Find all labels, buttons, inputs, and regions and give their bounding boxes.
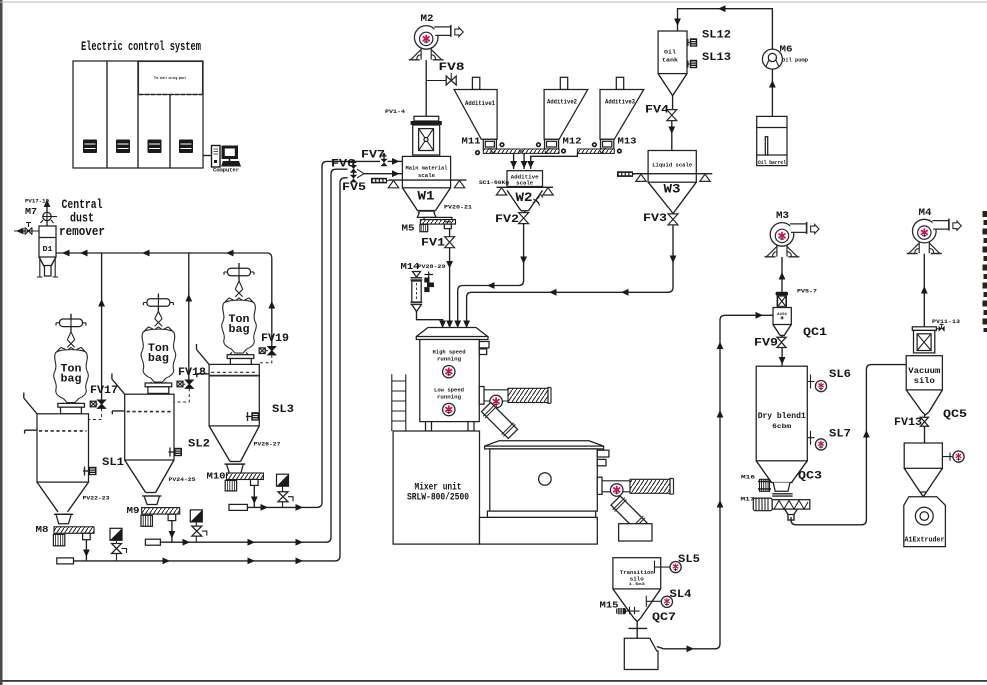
cooler dome (485, 441, 604, 446)
svg-text:PV1-4: PV1-4 (385, 108, 406, 115)
W1 scale body (388, 156, 466, 217)
valve FV19 (259, 333, 289, 363)
flange bar under QC3 (772, 494, 792, 496)
svg-text:bag: bag (148, 353, 169, 365)
oil tank (658, 31, 687, 96)
feeder M12 (522, 137, 582, 154)
svg-text:D1: D1 (43, 246, 53, 254)
valve FV18 (174, 367, 206, 402)
svg-text:QC3: QC3 (798, 471, 822, 483)
sensor SL5 (655, 554, 701, 573)
border frame left (0, 0, 3, 685)
svg-text:SL1: SL1 (102, 457, 124, 469)
sensor SL2 (169, 448, 183, 457)
spreader bar ton bag 2 (143, 294, 173, 312)
svg-text:Electric control system: Electric control system (81, 39, 201, 54)
dust riser FV18 (188, 253, 190, 380)
svg-text:bag: bag (61, 374, 82, 386)
svg-text:PV11-13: PV11-13 (932, 318, 961, 325)
svg-text:1.5m3: 1.5m3 (629, 583, 646, 587)
svg-text:SL7: SL7 (829, 429, 851, 441)
svg-text:W2: W2 (516, 190, 533, 205)
screw feeder M10 (225, 473, 263, 491)
wire FV9 to dry blend (781, 348, 783, 367)
svg-text:FV18: FV18 (178, 367, 206, 379)
svg-text:PV26-27: PV26-27 (254, 441, 281, 448)
svg-text:SC1-60Kg: SC1-60Kg (479, 180, 509, 186)
motor M16 (758, 479, 771, 491)
spreader bar ton bag 3 (224, 263, 254, 281)
W2 additive scale (496, 171, 553, 211)
sensor SL6 (807, 369, 851, 392)
ejector (624, 638, 658, 669)
svg-text:FV2: FV2 (495, 214, 519, 226)
svg-text:Additive3: Additive3 (605, 99, 635, 106)
wire M14 to mixer (417, 312, 443, 330)
svg-text:M4: M4 (919, 208, 932, 219)
svg-text:M5: M5 (402, 224, 415, 234)
valve FV17 (89, 385, 119, 420)
chute cooler to discharge box (610, 495, 649, 534)
filter on W1 (411, 116, 442, 155)
svg-text:M7: M7 (25, 207, 37, 217)
hopper 2 body (112, 374, 174, 505)
svg-text:FV1: FV1 (421, 238, 445, 250)
valve FV3 (643, 213, 678, 225)
extruder A1 (904, 492, 946, 547)
bag 3 outlet flange (228, 352, 250, 356)
svg-text:FV3: FV3 (643, 213, 667, 225)
border frame bottom (2, 680, 987, 682)
hopper 1 body (24, 393, 89, 524)
hook ton bag 2 (155, 312, 162, 327)
sensor SL7 (807, 429, 851, 451)
bag 1 outlet flange (60, 403, 82, 407)
wire FV1 to mixer (449, 248, 451, 330)
filter vacuum silo (912, 327, 936, 353)
ton bag 1 (54, 347, 89, 402)
wire vacuum silo to M4 (923, 254, 925, 327)
wire M11 to W2 (513, 153, 515, 169)
svg-text:Liquid scale: Liquid scale (652, 162, 692, 169)
svg-text:scale: scale (418, 172, 435, 179)
wire oil return header (678, 9, 773, 49)
cooler top plate (485, 446, 604, 449)
hook ton bag 3 (235, 281, 242, 297)
screw feeder M9 (141, 508, 180, 527)
oil pump M6 (762, 49, 782, 69)
svg-text:The short wiring panel: The short wiring panel (154, 76, 186, 80)
blower M4 (907, 219, 962, 254)
valve FV9 (754, 335, 786, 349)
ton bag 2 (141, 327, 176, 382)
valve FV7 (361, 150, 402, 167)
svg-text:silo: silo (630, 576, 644, 582)
filter QC1 (776, 292, 788, 307)
side motor high speed (479, 387, 551, 408)
svg-text:M6: M6 (780, 45, 793, 55)
valve FV5 (342, 169, 402, 194)
hook ton bag 1 (67, 332, 74, 348)
fan M7 (41, 200, 58, 227)
oil barrel (757, 116, 787, 166)
electric control cabinet (73, 61, 203, 168)
air inlet nozzle line2 (145, 539, 160, 545)
svg-text:running: running (437, 356, 462, 363)
valve FV13 (894, 415, 929, 429)
dust riser FV17 (101, 253, 103, 400)
valve at D1 inlet (14, 223, 39, 235)
wire M10 to line3 (253, 485, 255, 507)
svg-text:Computer: Computer (213, 168, 239, 174)
dust header wire (56, 253, 272, 346)
svg-text:Transition: Transition (620, 570, 654, 576)
sensor SL12 (687, 30, 731, 47)
svg-text:Low speed: Low speed (434, 387, 464, 394)
svg-text:SRLW-800/2500: SRLW-800/2500 (407, 492, 469, 504)
valve FV8 (426, 62, 465, 85)
wire line3 (M10 to FV7 riser) (247, 161, 380, 507)
vent valve on line3 (277, 474, 294, 507)
svg-text:Oil pump: Oil pump (782, 58, 808, 64)
dust remover D1 (37, 226, 58, 277)
additive3 hopper (600, 77, 644, 139)
svg-text:SL3: SL3 (272, 404, 294, 416)
mixer pedestal (393, 431, 479, 544)
svg-text:QC5: QC5 (943, 409, 967, 421)
wire line1 (M8 to FV5 riser) (74, 178, 348, 561)
svg-text:PV20-21: PV20-21 (444, 204, 473, 211)
svg-text:QC7: QC7 (652, 612, 676, 624)
svg-text:W1: W1 (418, 189, 435, 204)
vent box W3 (617, 171, 633, 177)
svg-text:W3: W3 (664, 182, 681, 197)
additive2 hopper (544, 77, 588, 139)
feeder M13 (577, 137, 636, 154)
air inlet nozzle line3 (229, 504, 247, 510)
dry blend silo (756, 366, 807, 491)
valve FV4 (645, 96, 677, 121)
svg-text:Oil: Oil (664, 49, 677, 56)
svg-text:Additive: Additive (511, 174, 539, 180)
wire FV3 to mixer (467, 225, 673, 330)
wire cabinet to computer (203, 155, 211, 157)
svg-text:FV8: FV8 (439, 62, 466, 74)
wire M12 to W2 (523, 153, 525, 169)
svg-text:PV28-29: PV28-29 (418, 263, 447, 270)
svg-text:High speed: High speed (433, 349, 466, 356)
svg-text:M15: M15 (600, 601, 619, 611)
valve PV11-13 (935, 324, 945, 331)
svg-text:M16: M16 (741, 474, 756, 481)
svg-text:Main material: Main material (406, 165, 448, 172)
liquid scale W3 (633, 151, 712, 214)
screw feeder M5 (402, 217, 456, 233)
air inlet nozzle line1 (57, 558, 74, 564)
svg-text:SL12: SL12 (702, 30, 731, 42)
svg-text:silo: silo (914, 377, 935, 386)
svg-text:M3: M3 (776, 211, 789, 222)
wire ejector to QC1 riser (664, 315, 773, 649)
svg-text:FV5: FV5 (342, 182, 366, 194)
blower M2 (409, 25, 464, 60)
border frame top (0, 2, 987, 3)
svg-text:M10: M10 (207, 472, 226, 482)
svg-text:Additive1: Additive1 (465, 100, 495, 107)
svg-text:PV22-23: PV22-23 (83, 495, 111, 502)
svg-text:remover: remover (59, 224, 105, 239)
vacuum silo (906, 356, 942, 415)
wire pump to barrel (771, 69, 773, 116)
svg-text:SL6: SL6 (829, 369, 851, 381)
svg-text:QC1: QC1 (803, 327, 827, 339)
svg-text:Additive2: Additive2 (547, 99, 577, 106)
svg-text:M11: M11 (462, 137, 482, 147)
vent valve on line1 (110, 528, 127, 561)
mixer dome (416, 328, 487, 337)
svg-text:M9: M9 (127, 506, 140, 516)
screw feeder M8 (53, 527, 94, 546)
svg-text:SL5: SL5 (678, 554, 700, 566)
mixer top plate (416, 337, 488, 340)
valve FV1 (421, 229, 455, 250)
feeder M11 (462, 137, 521, 156)
screw conveyor M17 (753, 498, 810, 520)
high speed vessel (420, 340, 489, 432)
right edge vertical text (983, 211, 987, 332)
vent valve on line2 (190, 510, 207, 542)
wire M8 to line1 (85, 540, 87, 561)
mixer ladder (392, 374, 406, 431)
cooler vessel (490, 449, 609, 511)
svg-text:FV4: FV4 (645, 105, 669, 117)
svg-text:Dry blend1: Dry blend1 (758, 411, 806, 421)
svg-text:6cbm: 6cbm (772, 423, 792, 430)
svg-text:SL2: SL2 (188, 439, 210, 451)
arrow on FV19 riser (268, 301, 275, 309)
spreader bar ton bag 1 (56, 314, 86, 332)
wire line2 (M9 to FV6 riser) (160, 169, 347, 542)
svg-text:FV13: FV13 (894, 417, 922, 429)
wire FV2 to mixer (458, 224, 524, 330)
wire silo to ejector (629, 621, 648, 638)
filter unit M14 (411, 272, 435, 312)
sensor SL3 (246, 412, 259, 421)
svg-text:Oil barrel: Oil barrel (758, 160, 786, 166)
svg-text:PV24-25: PV24-25 (169, 476, 197, 483)
svg-text:A1Extruder: A1Extruder (905, 537, 945, 545)
hopper 3 body (197, 344, 260, 474)
extruder hopper (904, 443, 964, 492)
svg-text:M8: M8 (36, 525, 49, 535)
wire M2 down to filter (425, 60, 427, 116)
wire QC1 filter to M3 (781, 257, 783, 292)
svg-text:tank: tank (662, 57, 679, 64)
svg-text:scale: scale (516, 181, 533, 187)
svg-text:FV9: FV9 (754, 338, 778, 350)
svg-text:FV19: FV19 (261, 333, 289, 345)
discharge box (619, 524, 652, 541)
additive1 hopper (454, 77, 497, 139)
vent box W1 (371, 178, 387, 184)
blower M3 (765, 222, 820, 257)
transition silo (613, 558, 661, 622)
svg-text:bag: bag (229, 324, 250, 336)
svg-text:M13: M13 (618, 137, 637, 147)
sensor SL13 (687, 52, 731, 68)
sensor SL4 (646, 589, 692, 607)
wire M13 to W2 (531, 153, 578, 169)
svg-text:FV17: FV17 (90, 385, 118, 397)
svg-text:running: running (437, 394, 462, 401)
side motor cooler (597, 477, 673, 496)
valve FV2 (495, 211, 529, 226)
svg-text:SL4: SL4 (670, 589, 692, 601)
sensor SL1 (83, 467, 97, 476)
wire QC3 to vacuum silo (791, 365, 906, 525)
wire M9 to line2 (171, 521, 173, 543)
svg-text:M12: M12 (563, 137, 582, 147)
computer (212, 146, 242, 174)
mixer base (487, 511, 595, 517)
chute high speed to cooler (480, 401, 519, 440)
svg-text:Vacuum: Vacuum (908, 367, 940, 376)
svg-text:PV5-7: PV5-7 (797, 288, 817, 295)
wire FV13 to hopper (924, 426, 926, 443)
receiver QC1 (773, 308, 791, 336)
svg-text:M2: M2 (421, 14, 434, 25)
bag 2 outlet flange (147, 382, 169, 386)
valve FV6 (331, 159, 364, 174)
motor M15 (616, 607, 640, 614)
wire FV4 to W3 (671, 121, 673, 151)
ton bag 3 (222, 298, 257, 353)
svg-text:FV6: FV6 (331, 159, 355, 171)
svg-text:SL13: SL13 (702, 52, 731, 64)
